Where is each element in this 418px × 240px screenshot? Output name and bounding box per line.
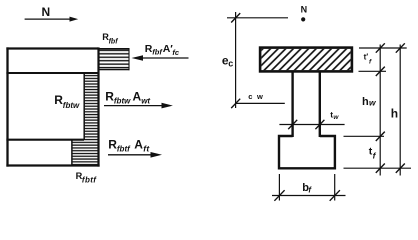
svg-text:fbf: fbf xyxy=(109,38,119,45)
svg-text:N: N xyxy=(42,5,51,19)
svg-text:c w: c w xyxy=(248,92,264,101)
svg-text:t′: t′ xyxy=(364,52,369,61)
svg-text:fbtf: fbtf xyxy=(117,144,131,153)
svg-text:ft: ft xyxy=(143,143,150,153)
svg-text:A: A xyxy=(133,90,142,104)
svg-text:c: c xyxy=(228,58,233,68)
svg-text:A: A xyxy=(134,137,143,151)
svg-text:fbtw: fbtw xyxy=(63,101,80,110)
svg-text:N: N xyxy=(301,5,308,15)
svg-text:fbtf: fbtf xyxy=(82,175,97,184)
svg-text:fbtw: fbtw xyxy=(114,97,131,106)
svg-text:fc: fc xyxy=(172,48,179,57)
svg-text:h: h xyxy=(362,96,369,108)
svg-text:wt: wt xyxy=(141,97,150,106)
svg-text:h: h xyxy=(391,107,398,121)
